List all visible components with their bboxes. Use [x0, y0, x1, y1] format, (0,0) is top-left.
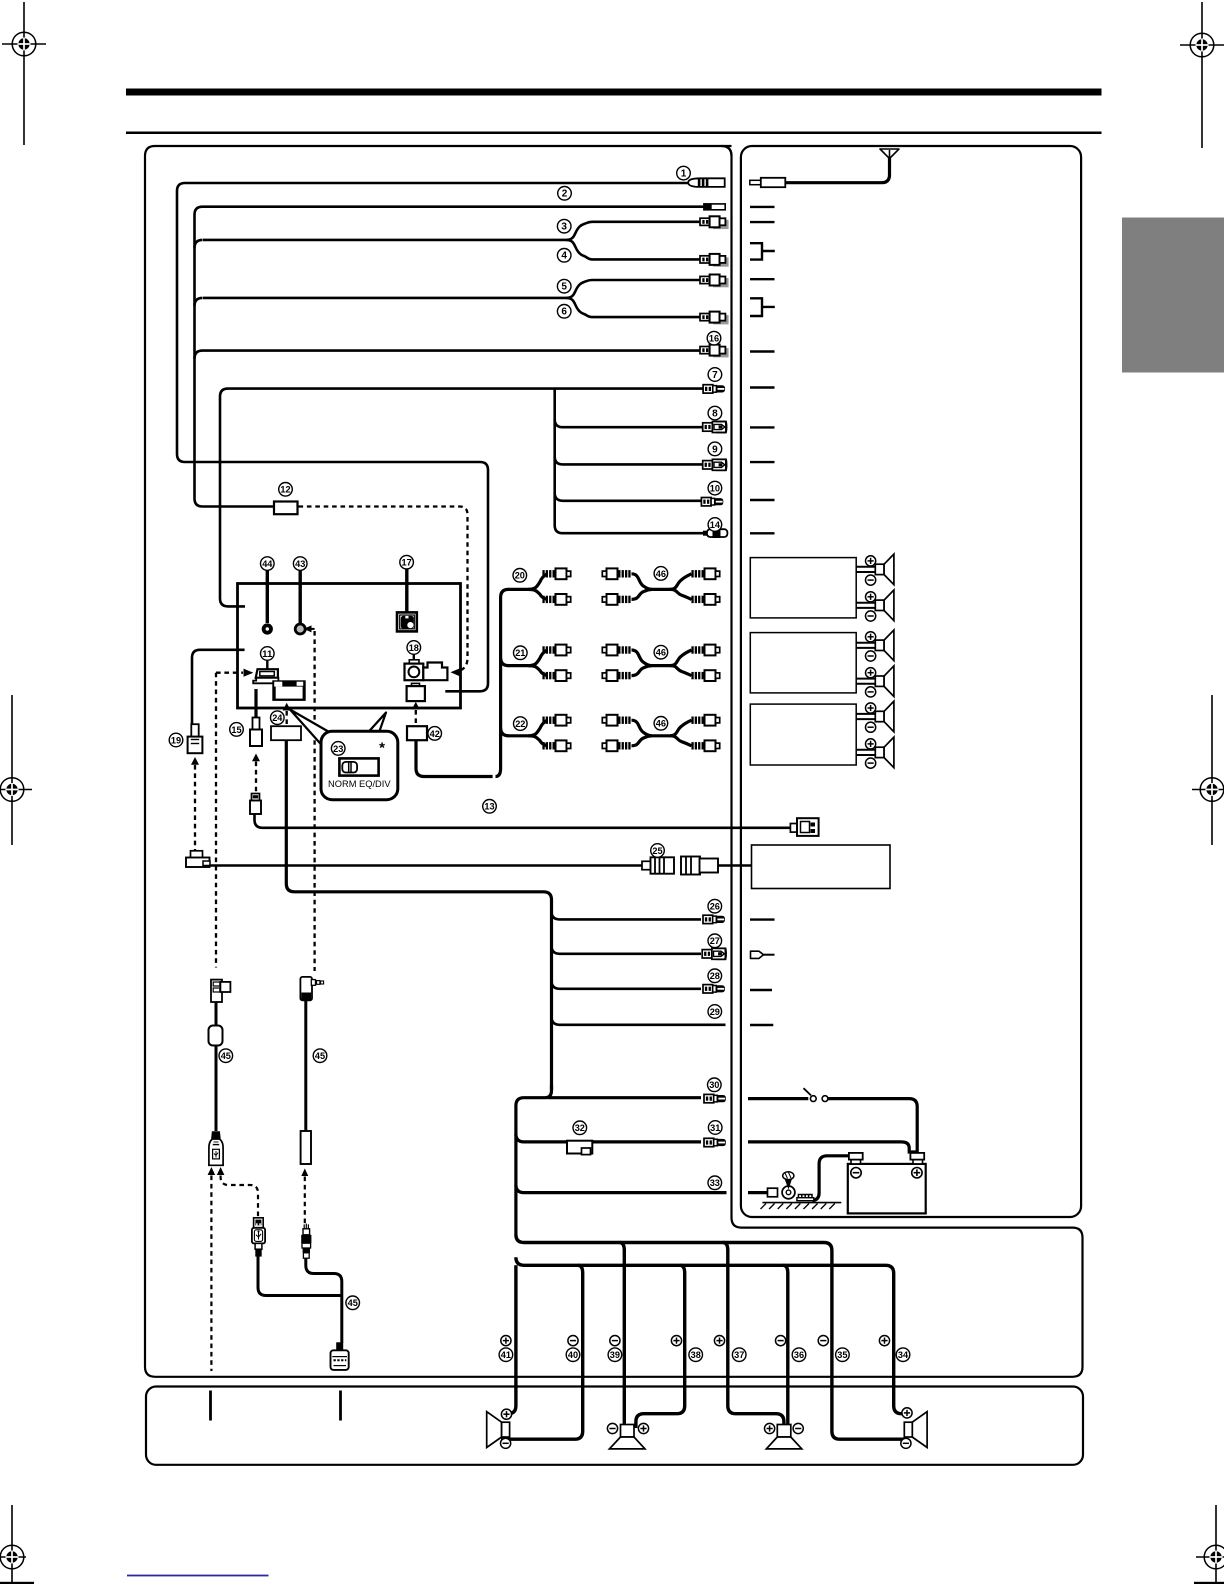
label 20 — [513, 569, 527, 583]
label 41 — [499, 1348, 513, 1362]
trunk for rows 26-29 continues to T — [516, 1085, 552, 1235]
stub row 14 — [750, 532, 775, 534]
svg-text:40: 40 — [568, 1349, 578, 1360]
registration mark bottom-right — [1196, 1505, 1224, 1584]
label 27 — [708, 934, 722, 948]
speaker D (right, facing right) — [904, 1412, 927, 1448]
svg-text:19: 19 — [171, 734, 181, 745]
speaker symbol y=752.4 — [875, 737, 894, 768]
wire 29 (bare end) — [552, 1017, 726, 1025]
svg-text:28: 28 — [710, 970, 720, 981]
trunk x=554.7 for wires 8/9/10/14 — [555, 389, 703, 534]
label 45 — [346, 1296, 360, 1310]
dashed stub down to box 42 — [415, 710, 417, 725]
strip tick 1 — [209, 1391, 212, 1421]
label 12 — [279, 483, 293, 497]
label 30 — [708, 1078, 722, 1092]
connector 3 — [700, 216, 729, 229]
wire 9 — [555, 456, 703, 464]
antenna lead and plug — [785, 158, 890, 183]
connector 6 — [700, 312, 729, 325]
speaker lead pair y=681.2 — [856, 678, 875, 680]
svg-text:18: 18 — [409, 642, 419, 653]
svg-text:35: 35 — [837, 1349, 847, 1360]
svg-text:25: 25 — [652, 845, 662, 856]
label 43 — [293, 557, 307, 571]
chassis ground wire — [748, 1191, 772, 1194]
connector 5 — [700, 275, 729, 288]
label 46 — [654, 645, 668, 659]
vehicle antenna box — [752, 845, 891, 889]
svg-text:10: 10 — [710, 483, 720, 494]
connector 30 — [704, 1094, 726, 1102]
balloon 23 body — [321, 731, 398, 799]
svg-text:15: 15 — [231, 724, 241, 735]
RCA plug 22 lower — [542, 740, 570, 751]
stub row 26 — [750, 918, 775, 920]
svg-text:NORM EQ/DIV: NORM EQ/DIV — [328, 779, 391, 789]
svg-text:37: 37 — [734, 1349, 744, 1360]
connector 11 (USB socket on unit) — [253, 669, 278, 683]
chain1 cable — [215, 1002, 218, 1131]
connector 26 — [703, 915, 725, 923]
connector 25 male — [642, 857, 674, 873]
label 21 — [514, 646, 528, 660]
label 6 — [557, 305, 571, 319]
registration mark top-left — [2, 2, 46, 145]
head unit box — [238, 584, 461, 709]
right-angle USB plug chain1 — [211, 980, 230, 1002]
RCA plug 20 lower — [542, 594, 570, 605]
label 5 — [557, 279, 571, 293]
bracket rows 3/4 — [750, 243, 775, 259]
RCA extension cable 46 — [632, 650, 692, 666]
top cap of left box right edge — [722, 146, 732, 156]
speaker symbol y=569.4 — [875, 554, 894, 585]
svg-text:26: 26 — [710, 901, 720, 912]
connector 24 (ISO connector on unit) — [272, 680, 305, 701]
stub row 9 — [750, 461, 775, 463]
svg-text:45: 45 — [315, 1050, 325, 1061]
speaker symbol y=716.5 — [875, 701, 894, 732]
corner arc: vertical 194.5 to 3/4 trunk — [195, 240, 203, 248]
two dashed up-arrows below chain1 connector — [208, 1167, 216, 1175]
3.5mm plug (male, up) — [301, 1224, 311, 1259]
battery terminal negative — [851, 1159, 861, 1164]
registration mark left-middle — [0, 695, 32, 845]
svg-text:2: 2 — [562, 189, 568, 200]
svg-text:*: * — [379, 740, 385, 757]
stub row 2 — [750, 206, 775, 208]
label 22 — [514, 717, 528, 731]
ferrite bead — [209, 1026, 223, 1046]
ignition switch wire to battery plus — [748, 1099, 917, 1152]
svg-text:1: 1 — [681, 169, 687, 180]
speaker symbol y=681.2 — [875, 666, 894, 697]
bottom edge tick left — [0, 1582, 34, 1584]
label 24 — [271, 711, 285, 725]
label 13 — [483, 800, 497, 814]
label 1 — [677, 166, 691, 180]
box 42 — [407, 726, 427, 740]
stub row 10 — [750, 499, 775, 501]
label 18 — [407, 641, 421, 655]
rocker switch drawing — [339, 758, 378, 775]
label 4 — [557, 249, 571, 263]
label 35 — [836, 1348, 850, 1362]
wire 27 — [552, 946, 702, 954]
wire 41 (v1 continues to speaker A plus) — [501, 1265, 516, 1413]
svg-text:45: 45 — [348, 1297, 358, 1308]
label 42 — [428, 727, 442, 741]
antenna mast — [880, 149, 899, 159]
battery negative lead — [813, 1156, 849, 1201]
connector 28 — [703, 985, 725, 993]
RCA extension cable 46 — [632, 720, 692, 736]
stub row 8 — [750, 426, 775, 428]
speaker B (facing down) — [609, 1425, 645, 1449]
label 44 — [261, 557, 275, 571]
jack 44 stem — [266, 571, 269, 624]
speaker lead pair y=605.3 — [856, 602, 875, 604]
svg-text:31: 31 — [710, 1122, 720, 1133]
up arrow under 18 mate — [412, 702, 420, 710]
dashed with up-arrow below 15 — [252, 754, 260, 762]
stub row 16 — [750, 350, 775, 352]
connector 17 stem — [405, 569, 408, 613]
amplifier box 2 — [750, 633, 856, 693]
bundle trunk 2 — [516, 1257, 904, 1413]
arrow into connector 18 right side — [451, 668, 461, 676]
dashed with up-arrow below 19 — [191, 757, 199, 765]
USB plug (male, up) — [252, 1218, 265, 1257]
svg-text:3: 3 — [561, 222, 567, 233]
connector 19 (antenna plug, vertical) — [188, 724, 203, 753]
stub row 3 — [750, 221, 775, 223]
bottom blue rule — [127, 1575, 269, 1577]
svg-text:20: 20 — [515, 570, 525, 581]
chain2 lower connector (mini jack female) — [301, 1131, 311, 1164]
label 46 — [654, 567, 668, 581]
ring terminal — [782, 1186, 795, 1199]
label 17 — [400, 555, 414, 569]
battery plus symbol — [912, 1168, 922, 1178]
registration mark right-middle — [1192, 695, 1224, 845]
svg-text:8: 8 — [712, 409, 718, 420]
right box frame — [741, 146, 1081, 1217]
label 36 — [792, 1348, 806, 1362]
connector 15 (USB plug) — [250, 718, 262, 747]
RCA plug 20 upper — [542, 568, 570, 579]
connector 1 (antenna plug, male) — [688, 178, 725, 187]
plug glyph row 27 — [751, 951, 764, 958]
battery terminal positive — [913, 1159, 923, 1164]
speaker C (facing down) — [766, 1425, 802, 1449]
bottom edge tick right — [1194, 1582, 1224, 1584]
svg-text:9: 9 — [712, 444, 718, 455]
connector 16 — [700, 345, 729, 358]
switch contacts and lever — [810, 1096, 816, 1102]
stub row 29 — [750, 1024, 773, 1026]
ground clip — [798, 1195, 812, 1201]
svg-text:17: 17 — [402, 557, 412, 568]
svg-text:4: 4 — [561, 251, 567, 262]
right-angle antenna adapter below 19 — [186, 851, 210, 867]
wire 15 stub above plug — [254, 689, 257, 718]
corner arc: vertical 194.5 to 5/6 trunk — [195, 298, 203, 306]
svg-text:41: 41 — [501, 1349, 511, 1360]
jack 44 (RCA input, filled) — [262, 623, 273, 634]
label 28 — [708, 969, 722, 983]
svg-text:46: 46 — [656, 568, 666, 579]
right edge gray tab — [1122, 218, 1224, 373]
label 16 — [707, 331, 721, 345]
svg-text:43: 43 — [295, 558, 305, 569]
ground wire end block — [768, 1188, 778, 1197]
dashed from jack 43 down to right-angle mini plug — [313, 631, 315, 971]
label 37 — [732, 1348, 746, 1362]
white box 24 — [271, 726, 301, 740]
RCA pair 21 Y-split — [508, 650, 547, 666]
connector 8 — [703, 422, 727, 433]
label 10 — [708, 481, 722, 495]
label 40 — [566, 1348, 580, 1362]
balloon 23 tails — [290, 710, 330, 747]
iPod dock connector — [331, 1342, 349, 1370]
label 23 — [331, 742, 345, 756]
connector 2 — [704, 203, 725, 210]
label 19 — [169, 733, 183, 747]
svg-text:46: 46 — [656, 647, 666, 658]
RCA trunk vertical — [496, 589, 509, 776]
connector 10 — [701, 498, 723, 506]
label 7 — [708, 368, 722, 382]
speaker lead pair y=752.4 — [856, 749, 875, 751]
speaker lead pair y=569.4 — [856, 566, 875, 568]
label 8 — [708, 406, 722, 420]
connector 14 (inline fuse holder) — [703, 528, 727, 538]
svg-text:23: 23 — [333, 743, 343, 754]
speaker symbol y=645.3 — [875, 630, 894, 661]
label 45 — [219, 1049, 233, 1063]
header thick rule — [126, 89, 1102, 96]
polarity minus bundle — [610, 1336, 620, 1346]
wire 39 (v3) — [620, 1243, 625, 1429]
polarity minus bundle — [818, 1336, 828, 1346]
stub row 28 — [750, 989, 772, 991]
svg-text:5: 5 — [561, 282, 567, 293]
wire 36 (v6) — [783, 1265, 788, 1428]
main left box (L-shaped frame) — [145, 146, 1083, 1377]
svg-text:11: 11 — [262, 648, 272, 659]
label 15 — [230, 723, 244, 737]
polarity minus bundle — [776, 1336, 786, 1346]
speaker lead pair y=645.3 — [856, 642, 875, 644]
up arrow under connector 24 — [283, 703, 291, 711]
wire 30 — [548, 1096, 701, 1099]
wire from box 24 down to power trunk — [286, 740, 551, 1089]
wire 33 (bare end) — [516, 1185, 727, 1193]
dashed stub to white box 24 — [286, 711, 288, 725]
connector 13 (antenna socket) — [790, 818, 818, 836]
stub row 5 — [750, 278, 775, 280]
label 26 — [708, 899, 722, 913]
label 14 — [708, 518, 722, 532]
jack 43 (aux input ring) — [295, 624, 305, 634]
label 2 — [558, 187, 572, 201]
header thin rule — [126, 132, 1102, 135]
dashed route from box 12 to connector 18 — [299, 507, 468, 672]
connector 17 (optical digital) — [397, 612, 417, 631]
RCA extension cable 46 — [632, 574, 692, 590]
bracket rows 5/6 — [750, 298, 775, 316]
RCA plug 21 lower — [542, 670, 570, 681]
svg-text:45: 45 — [221, 1050, 231, 1061]
connector 27 — [702, 948, 726, 959]
arrow into jack 43 — [304, 625, 312, 632]
amplifier box 1 — [750, 558, 856, 618]
wire 13 (long antenna lead to right box) — [255, 814, 791, 828]
wire 7 (T at x=554.7, left leg down into unit) — [220, 389, 703, 607]
label 32 — [573, 1121, 587, 1135]
jack 43 stem — [299, 571, 302, 624]
chain1 dashed from connector 11 — [215, 673, 217, 968]
polarity plus bundle — [879, 1336, 889, 1346]
label 29 — [708, 1005, 722, 1019]
svg-text:32: 32 — [575, 1122, 585, 1133]
label 3 — [557, 219, 571, 233]
label 34 — [896, 1348, 910, 1362]
svg-text:21: 21 — [515, 647, 525, 658]
svg-text:30: 30 — [709, 1079, 719, 1090]
ground bolt — [783, 1172, 794, 1180]
connector 25 female with lead to antenna box — [716, 864, 752, 867]
wire 1 route (unit right side, up and over to connector 1) — [177, 183, 689, 691]
chain1 lower connector (USB female, bottle shape) — [209, 1131, 223, 1165]
wire 25 (antenna extension) — [210, 864, 643, 867]
speaker A (left, facing left) — [487, 1412, 510, 1448]
label 25 — [651, 844, 665, 858]
svg-text:24: 24 — [272, 712, 283, 723]
label 38 — [689, 1348, 703, 1362]
connector 18 (camera connector pair) — [405, 660, 448, 680]
wire 2 (to box 12) — [195, 207, 705, 507]
label 46 — [654, 717, 668, 731]
polarity minus bundle — [568, 1336, 578, 1346]
wire 16 — [195, 351, 704, 359]
svg-text:13: 13 — [484, 801, 494, 812]
svg-text:6: 6 — [561, 307, 567, 318]
wire from box 42 to RCA trunk — [416, 740, 493, 776]
label 45 — [313, 1049, 327, 1063]
wire pair 3/4 trunk and Y-split — [203, 222, 704, 240]
polarity plus bundle — [501, 1336, 511, 1346]
wire 8 — [555, 419, 703, 427]
connector 7 — [703, 385, 725, 393]
wire 40 (v2) — [501, 1265, 583, 1439]
ground hatching — [762, 1202, 841, 1204]
svg-text:16: 16 — [709, 333, 719, 344]
svg-text:33: 33 — [710, 1177, 720, 1188]
dashed up-arrow below chain2 connector — [301, 1169, 308, 1177]
svg-text:7: 7 — [712, 370, 718, 381]
speaker lead pair y=716.5 — [856, 713, 875, 715]
wire 28 — [552, 981, 702, 989]
svg-text:39: 39 — [610, 1349, 620, 1360]
fuse holder 32 — [567, 1141, 592, 1155]
svg-text:34: 34 — [898, 1349, 909, 1360]
battery wire from row 31 — [748, 1142, 917, 1152]
svg-text:36: 36 — [794, 1349, 804, 1360]
strip tick 2 — [339, 1391, 342, 1421]
battery minus symbol — [851, 1168, 861, 1178]
mini plug below 15 — [250, 794, 261, 815]
svg-text:12: 12 — [280, 484, 290, 495]
connector 18 lower mate — [407, 683, 425, 701]
label 11 — [261, 647, 275, 661]
svg-text:29: 29 — [710, 1006, 720, 1017]
chain2 solid cable below right-angle mini plug — [304, 1000, 307, 1131]
RCA pair 22 Y-split — [508, 720, 547, 736]
label 18 stem — [413, 654, 415, 663]
polarity plus bundle — [671, 1336, 681, 1346]
USB cable to iPod connector — [258, 1256, 342, 1295]
label 9 — [708, 442, 722, 456]
right-angle 3.5mm plug chain2 — [300, 977, 323, 1000]
label 39 — [608, 1348, 622, 1362]
svg-text:22: 22 — [515, 718, 525, 729]
label 33 — [708, 1176, 722, 1190]
label 11 stem — [266, 660, 268, 668]
RCA pair 20 Y-split — [508, 574, 547, 590]
bottom strip frame — [146, 1387, 1083, 1465]
speaker symbol y=605.3 — [875, 590, 894, 621]
label 31 — [708, 1121, 722, 1135]
amplifier box 3 — [750, 704, 856, 765]
wire 26 — [552, 911, 702, 919]
wire 19 into unit — [192, 650, 245, 724]
box 12 — [274, 502, 298, 515]
svg-text:44: 44 — [262, 558, 273, 569]
wire 31 — [516, 1134, 701, 1142]
wire pair 5/6 trunk and Y-split — [203, 280, 704, 298]
registration mark bottom-left — [0, 1505, 26, 1584]
dashed arrow into connector 11 from chain — [216, 672, 243, 674]
connector 9 — [703, 459, 727, 470]
connector 31 — [704, 1138, 726, 1146]
svg-text:42: 42 — [430, 728, 440, 739]
polarity plus bundle — [714, 1336, 724, 1346]
svg-text:14: 14 — [710, 519, 721, 530]
RCA plug 21 upper — [542, 645, 570, 656]
svg-text:38: 38 — [691, 1349, 701, 1360]
registration mark top-right — [1180, 2, 1224, 148]
svg-text:27: 27 — [710, 935, 720, 946]
battery body — [848, 1164, 926, 1214]
RCA plug 22 upper — [542, 715, 570, 726]
bundle trunk 1 — [516, 1235, 904, 1440]
svg-text:46: 46 — [656, 718, 666, 729]
connector 4 — [700, 254, 729, 267]
stub row 7 — [750, 386, 775, 388]
mini cable to iPod connector — [306, 1258, 342, 1343]
wire 10 — [555, 493, 702, 501]
wire 38 (v4) — [636, 1265, 685, 1428]
wire 37 (v5) — [723, 1243, 784, 1429]
